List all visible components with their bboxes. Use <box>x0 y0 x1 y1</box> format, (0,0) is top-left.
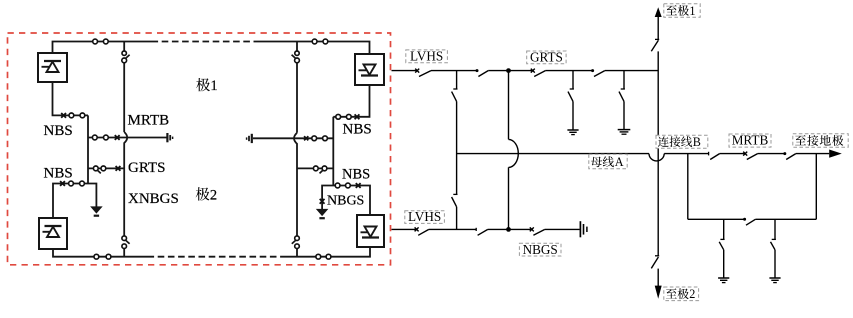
wire LVHS feeder segment 2 <box>431 70 477 72</box>
disconnector on pole1 top bus <box>93 39 109 44</box>
wire to MRTB switch <box>720 153 746 155</box>
switch MRTB <box>743 152 757 160</box>
bottom loop line right part <box>755 218 816 220</box>
disconnector right neutral bus top <box>292 51 300 63</box>
main bus upper section <box>657 16 659 39</box>
label MRTB <box>128 113 170 129</box>
ground 2 <box>618 130 631 135</box>
label box to ground electrode (zhi jie di ji) <box>793 134 848 147</box>
disconnector MRTB line <box>92 135 108 140</box>
wire bottom row segment 3 <box>488 228 532 230</box>
wire pole1 top bus from valve V1 <box>53 42 152 54</box>
arrow to ground electrode <box>829 150 842 158</box>
wire right NBS vertical <box>332 117 334 186</box>
wire GRTS line to neutral bus <box>88 167 124 169</box>
switch GRTS left open <box>93 166 105 173</box>
ground 4 <box>769 278 780 283</box>
svg-text:LVHS: LVHS <box>410 48 443 63</box>
arrow to pole 1 <box>655 7 662 17</box>
node junction dot top row <box>506 68 511 73</box>
ground 3 <box>718 278 729 283</box>
wire right GRTS line <box>297 167 333 169</box>
ground terminal (rotated earth) <box>580 221 587 237</box>
label box LVHS bottom <box>405 209 445 224</box>
wire top row segment 5 to main bus <box>605 70 658 72</box>
wire valve V1 to NBS node <box>53 82 89 115</box>
label box to pole 2 (zhi ji 2) <box>664 287 699 301</box>
disconnector NBS1 right <box>336 114 351 119</box>
wire valve V2 to right NBS node <box>333 85 369 117</box>
converter valve V2 (pole1 right) <box>355 54 384 85</box>
svg-text:GRTS: GRTS <box>530 49 563 64</box>
switch top row 2 <box>476 69 489 76</box>
switch LVHS bottom <box>415 227 429 235</box>
label NBGS <box>327 194 364 209</box>
svg-text:2: 2 <box>689 287 695 301</box>
label box bus A (mu xian A) <box>589 154 627 169</box>
ground NBGS right <box>317 209 328 219</box>
wire MRTB to next switch <box>758 153 785 155</box>
label NBS (pole2 right) <box>342 167 370 183</box>
grounding branch 4 (MRTB loop) <box>771 219 776 278</box>
label box MRTB <box>729 133 771 148</box>
disconnector pole2 bottom left <box>94 254 111 259</box>
wire pole1 top bus to valve V2 <box>259 42 370 55</box>
switch to ground electrode line <box>783 152 796 159</box>
switch GRTS right open <box>313 166 327 173</box>
vertical ground electrode leg <box>815 154 817 220</box>
label GRTS <box>128 160 165 176</box>
switch main bus top <box>651 39 659 51</box>
left neutral bus with crossover hop <box>124 42 127 257</box>
wire to ground electrode arrow <box>796 153 829 155</box>
breaker NBS2 right <box>356 183 361 188</box>
svg-text:GRTS: GRTS <box>128 160 165 176</box>
converter valve V4 (pole2 left) <box>39 218 67 249</box>
svg-text:1: 1 <box>210 78 217 94</box>
disconnector left neutral bus bottom <box>122 236 130 249</box>
bottom loop line left part <box>688 218 745 220</box>
label box to pole 1 (zhi ji 1) <box>664 4 700 18</box>
label box GRTS <box>527 49 566 64</box>
bus A horizontal line <box>457 154 665 161</box>
wire bottom row to ground terminal <box>545 228 580 230</box>
disconnector right MRTB line <box>312 136 328 141</box>
main bus lower section <box>657 269 659 287</box>
main bus middle section <box>657 51 659 255</box>
label box LVHS top <box>406 48 448 63</box>
ground 1 <box>567 130 578 135</box>
svg-text:XNBGS: XNBGS <box>128 191 179 207</box>
grounding branch 2 (GRTS) <box>619 71 625 130</box>
switch bottom row 2 <box>476 228 488 236</box>
disconnector pole2 bottom right <box>316 254 331 259</box>
switch connection line B <box>709 152 720 160</box>
label XNBGS <box>128 191 179 207</box>
grounding branch 1 (GRTS) <box>568 71 574 130</box>
disconnector NBS2 right <box>335 183 350 188</box>
svg-text:2: 2 <box>210 187 217 203</box>
svg-text:MRTB: MRTB <box>732 133 769 148</box>
svg-text:NBS: NBS <box>342 167 370 183</box>
svg-text:NBS: NBS <box>44 165 73 181</box>
switch main bus bottom <box>651 256 659 269</box>
breaker NBS2 left <box>60 181 65 186</box>
grounding terminal right (MRTB line) <box>247 134 252 143</box>
label NBS (pole1 left) <box>44 123 73 139</box>
label NBS (pole1 right) <box>343 121 372 137</box>
svg-text:NBGS: NBGS <box>523 242 558 257</box>
disconnector right neutral bus bottom <box>292 236 300 249</box>
svg-text:A: A <box>615 155 624 169</box>
svg-text:NBS: NBS <box>44 123 73 139</box>
switch NBGS <box>530 227 545 235</box>
switch GRTS row <box>531 69 546 77</box>
svg-text:B: B <box>693 135 701 149</box>
disconnector left neutral bus top <box>122 51 130 63</box>
breaker NBS1 left <box>61 113 66 118</box>
vertical branch with two disconnectors <box>452 71 458 230</box>
svg-text:1: 1 <box>689 4 695 18</box>
grounding branch 3 (MRTB loop) <box>719 219 724 278</box>
wire LVHS feeder segment 1 <box>392 70 418 72</box>
wire MRTB line to terminal <box>88 137 167 139</box>
disconnector on pole1 top bus right <box>312 39 328 44</box>
ground XNBGS left <box>91 207 102 217</box>
switch LVHS top <box>415 69 431 77</box>
breaker right MRTB line <box>304 136 308 140</box>
breaker MRTB <box>115 135 120 140</box>
vertical link with crossover hop over bus A <box>509 71 519 230</box>
breaker NBGS <box>320 199 325 204</box>
wire valve V4 top to NBS2 and ground branch <box>53 184 96 219</box>
wire top row segment 3 <box>488 70 533 72</box>
grounding terminal left (MRTB line) <box>167 133 172 142</box>
switch top row 4 <box>591 69 605 76</box>
wire LVHS bottom row segment 1 <box>392 228 417 230</box>
wire left NBS vertical <box>87 115 89 183</box>
wire pole2 bottom dashed tie line <box>148 256 285 258</box>
wire top row segment 4 <box>545 70 592 72</box>
label box connection line B (lian jie xian B) <box>656 135 708 149</box>
node junction dot bottom row <box>506 227 511 232</box>
svg-text:MRTB: MRTB <box>128 113 170 129</box>
wire pole2 bottom bus from valve V4 <box>53 249 148 257</box>
breaker GRTS left <box>116 166 121 171</box>
svg-text:NBGS: NBGS <box>327 194 364 209</box>
label pole 2 (ji 2) <box>196 187 217 203</box>
switch bottom loop <box>743 218 755 225</box>
svg-text:LVHS: LVHS <box>408 209 441 224</box>
breaker NBS1 right <box>355 114 360 119</box>
wire valve V3 top to NBS2 and NBGS branch <box>322 186 370 216</box>
label pole 1 (ji 1) <box>196 78 217 94</box>
label box NBGS <box>519 242 561 257</box>
right neutral bus with crossover hop <box>294 42 297 257</box>
disconnector NBS1 left <box>69 113 85 118</box>
wire right MRTB line from terminal <box>253 137 333 139</box>
arrow to pole 2 <box>655 286 662 299</box>
svg-text:NBS: NBS <box>343 121 372 137</box>
disconnector NBS2 left <box>69 181 85 186</box>
label NBS (pole2 left) <box>44 165 73 181</box>
wire connection line B segment <box>664 153 708 155</box>
wire bottom row segment 2 <box>429 228 476 230</box>
wire pole1 top dashed tie line <box>152 41 259 43</box>
wire pole2 bottom bus to valve V3 <box>284 247 370 257</box>
converter valve V1 (pole1 left) <box>38 53 67 82</box>
converter valve V3 (pole2 right) <box>357 215 384 247</box>
vertical connection line B left leg <box>687 154 689 220</box>
dashed red boundary box <box>8 33 391 265</box>
